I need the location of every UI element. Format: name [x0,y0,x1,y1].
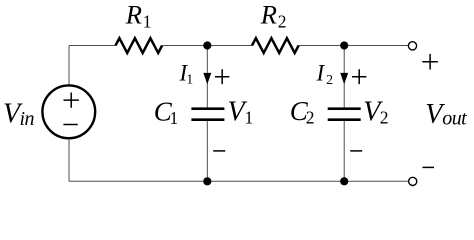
current arrow I2 [340,73,348,84]
resistor R2 [252,38,299,53]
wire R1 to R2 (through node 1) [162,45,252,47]
label Vin [3,98,35,130]
label I2 [316,60,334,87]
label Vout [425,99,467,130]
wire source top lead [68,46,70,85]
junction node 1 bottom [203,177,211,185]
plus sign V1 [215,69,229,84]
svg-text:out: out [442,108,467,130]
wire C2 top lead [343,46,345,108]
svg-text:R: R [125,0,142,30]
label V2 [363,97,388,128]
svg-text:in: in [20,108,35,130]
label I1 [179,60,194,86]
label V1 [228,97,254,128]
junction node 2 top [340,41,348,49]
svg-text:R: R [260,0,277,30]
capacitor C2 [328,109,361,120]
capacitor C1 [191,109,224,120]
plus sign V2 [352,69,366,84]
wire C1 bottom lead [206,121,208,182]
svg-text:1: 1 [245,107,254,127]
label C2 [290,96,315,127]
wire top-left horizontal (source to R1) [69,45,116,47]
svg-text:1: 1 [143,11,152,31]
junction node 2 bottom [340,177,348,185]
wire bottom rail [69,180,409,182]
label C1 [154,96,178,128]
wire C2 bottom lead [343,121,345,182]
wire R2 to top output terminal (through node 2) [299,45,409,47]
svg-text:2: 2 [326,72,333,87]
resistor R1 [116,38,163,53]
label R2 [260,0,287,31]
output terminal bottom [409,177,417,185]
minus sign V2 [350,150,362,152]
label R1 [125,0,152,31]
wire C1 top lead [206,46,208,108]
svg-text:2: 2 [380,107,389,127]
minus sign V1 [213,150,225,152]
minus sign Vout [423,166,435,168]
svg-text:2: 2 [278,11,287,31]
current arrow I1 [203,73,211,84]
svg-text:2: 2 [306,108,315,128]
svg-text:1: 1 [170,108,179,128]
plus sign Vout [422,54,438,70]
output terminal top [408,42,416,50]
svg-text:I: I [316,60,326,85]
junction node 1 top [203,41,211,49]
svg-text:1: 1 [186,72,193,87]
wire source bottom lead [68,139,70,181]
voltage source Vin [42,85,95,138]
